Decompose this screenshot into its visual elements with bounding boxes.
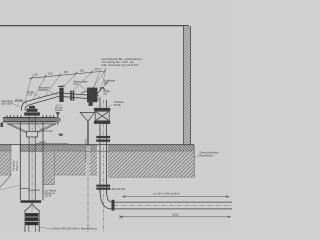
basement pipe to the right	[115, 202, 233, 209]
label leaders	[11, 86, 113, 108]
pump dark blocks	[25, 213, 38, 221]
svg-text:Fabr. Sonstwas Typ 11a R 3/4": Fabr. Sonstwas Typ 11a R 3/4"	[102, 63, 139, 67]
bolts	[7, 115, 54, 117]
svg-text:Abdeckung: Abdeckung	[1, 100, 13, 103]
svg-text:Pumpe UPA 150C 50/6 m. Mantelk: Pumpe UPA 150C 50/6 m. Mantelkühlung	[53, 227, 98, 230]
wall section (hatched strip)	[184, 26, 191, 146]
inner pipe	[28, 116, 30, 201]
drain funnel	[80, 101, 95, 147]
ground: main hatch body	[0, 145, 194, 190]
dim line above basement pipe	[123, 196, 229, 198]
svg-text:Wasserzähler: Wasserzähler	[74, 80, 88, 83]
casing lines	[19, 122, 21, 200]
water meter dark block	[87, 88, 97, 103]
left block	[0, 151, 11, 175]
small streak above run	[81, 90, 90, 93]
band boundary lines	[0, 145, 194, 185]
weld seam tick on casing	[20, 188, 29, 190]
riser bottom elbow	[100, 190, 112, 209]
dim line below basement pipe	[120, 215, 231, 220]
riser flange pair mid	[96, 136, 110, 142]
riser flange block top	[94, 108, 110, 124]
vent text block (3 lines)	[102, 57, 143, 67]
right edge line of hatch	[193, 145, 195, 177]
svg-text:130: 130	[33, 73, 38, 77]
svg-text:50/40/32: 50/40/32	[39, 90, 49, 92]
pump flange bar	[21, 200, 42, 203]
Dämmschicht label	[200, 151, 219, 157]
svg-text:St-Rohr DN 80: St-Rohr DN 80	[109, 188, 126, 191]
svg-text:500 x 500: 500 x 500	[1, 104, 12, 106]
dimension chain line (top)	[29, 69, 106, 80]
svg-text:150 l/s: 150 l/s	[45, 196, 53, 198]
svg-text:ca. 80 m üNN geländ.: ca. 80 m üNN geländ.	[153, 193, 180, 196]
riser pipe down to basement	[100, 97, 107, 193]
svg-text:geschweißt: geschweißt	[28, 189, 40, 192]
riser flange pair low	[96, 185, 110, 190]
pump pointed top + body sides	[25, 203, 39, 232]
svg-text:rohr: rohr	[103, 93, 107, 96]
braces under plate	[8, 124, 57, 138]
bottom slope at left	[0, 175, 11, 188]
geschweißt text	[28, 189, 56, 198]
ground: surface slab band	[0, 145, 194, 152]
right of riser block	[108, 151, 194, 177]
drain line dash-dot	[87, 146, 89, 232]
pump leader + label	[38, 227, 52, 229]
svg-text:165: 165	[64, 70, 69, 74]
svg-text:150: 150	[48, 71, 53, 75]
left edge stub of plate	[1, 123, 4, 128]
+850 level line	[36, 143, 68, 145]
leaders from vent text block	[91, 67, 107, 96]
svg-text:Beton 5:1: Beton 5:1	[16, 160, 19, 171]
right of casing deep block	[43, 151, 54, 185]
svg-text:224: 224	[95, 67, 100, 71]
svg-text:Kupfer: Kupfer	[27, 91, 34, 94]
svg-text:Reduzierst.: Reduzierst.	[39, 86, 51, 89]
valve with handwheel on run	[58, 86, 64, 102]
svg-text:Randstreifen: Randstreifen	[200, 154, 214, 157]
svg-text:EVG: EVG	[15, 99, 23, 103]
svg-text:+850: +850	[39, 140, 46, 144]
svg-text:HN,5-E2: HN,5-E2	[41, 129, 53, 133]
dimension numbers	[33, 67, 99, 77]
flange pair on run	[70, 91, 74, 101]
main pipe run from well head elbow	[21, 93, 99, 111]
svg-text:Entwässerungsleitung: Entwässerungsleitung	[85, 138, 88, 162]
seal column rotated text	[13, 160, 20, 171]
svg-text:195: 195	[80, 68, 85, 72]
pump lower body inner lines	[28, 225, 30, 232]
svg-text:Kupfer-: Kupfer-	[103, 90, 111, 93]
svg-text:1 1/4": 1 1/4"	[27, 95, 33, 97]
well head fitting cluster above plate	[24, 106, 40, 116]
svg-text:G 1/2: G 1/2	[56, 105, 62, 107]
vent branch + ball valve (bowtie)	[96, 81, 109, 97]
svg-text:Qn 6: Qn 6	[74, 84, 80, 86]
coupling box on pipe	[27, 132, 38, 137]
centre block	[54, 151, 86, 175]
ceiling line	[0, 25, 189, 27]
svg-text:3100: 3100	[172, 212, 179, 216]
seal column white	[11, 145, 20, 175]
svg-text:3/4": 3/4"	[104, 83, 108, 85]
small label left of funnel	[55, 107, 63, 112]
drop lines from dim chain	[25, 72, 105, 102]
level mark post right of plate	[57, 114, 59, 125]
labels top-left	[1, 80, 124, 106]
svg-text:DN 80: DN 80	[114, 105, 121, 107]
elbow flange	[112, 200, 115, 211]
svg-text:flansch: flansch	[55, 110, 63, 112]
well head plate	[3, 115, 58, 124]
